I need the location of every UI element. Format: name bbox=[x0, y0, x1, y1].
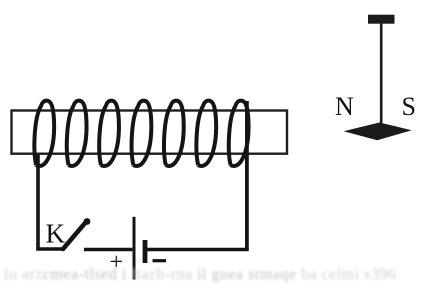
coil turn 4 bbox=[132, 101, 152, 166]
switch K blade tip blob bbox=[84, 218, 91, 225]
wire battery to right corner bbox=[147, 248, 249, 251]
wire switch to battery bbox=[84, 248, 132, 251]
wire bottom left to switch bbox=[36, 247, 64, 250]
coil turn 2 bbox=[67, 101, 87, 166]
svg-text:S: S bbox=[402, 92, 416, 121]
svg-text:K: K bbox=[46, 219, 66, 249]
stand top bar bbox=[368, 15, 395, 24]
battery short plate (-) bbox=[143, 240, 148, 263]
faint ghost text bleed-through bbox=[4, 266, 426, 284]
label minus bbox=[153, 259, 167, 262]
stand rod bbox=[380, 23, 383, 123]
iron core bar bbox=[12, 111, 288, 154]
coil turn 7 bbox=[229, 101, 249, 166]
needle diamond bbox=[344, 123, 412, 141]
switch K blade bbox=[63, 223, 86, 250]
wire left lead bbox=[36, 154, 40, 249]
coil turn 1 bbox=[34, 101, 54, 166]
wire right lead bbox=[245, 101, 249, 251]
battery long plate (+) bbox=[133, 217, 136, 280]
coil turn 5 bbox=[164, 101, 184, 166]
coil turn 6 bbox=[196, 101, 216, 166]
coil turn 3 bbox=[99, 101, 119, 166]
svg-text:N: N bbox=[335, 92, 354, 121]
